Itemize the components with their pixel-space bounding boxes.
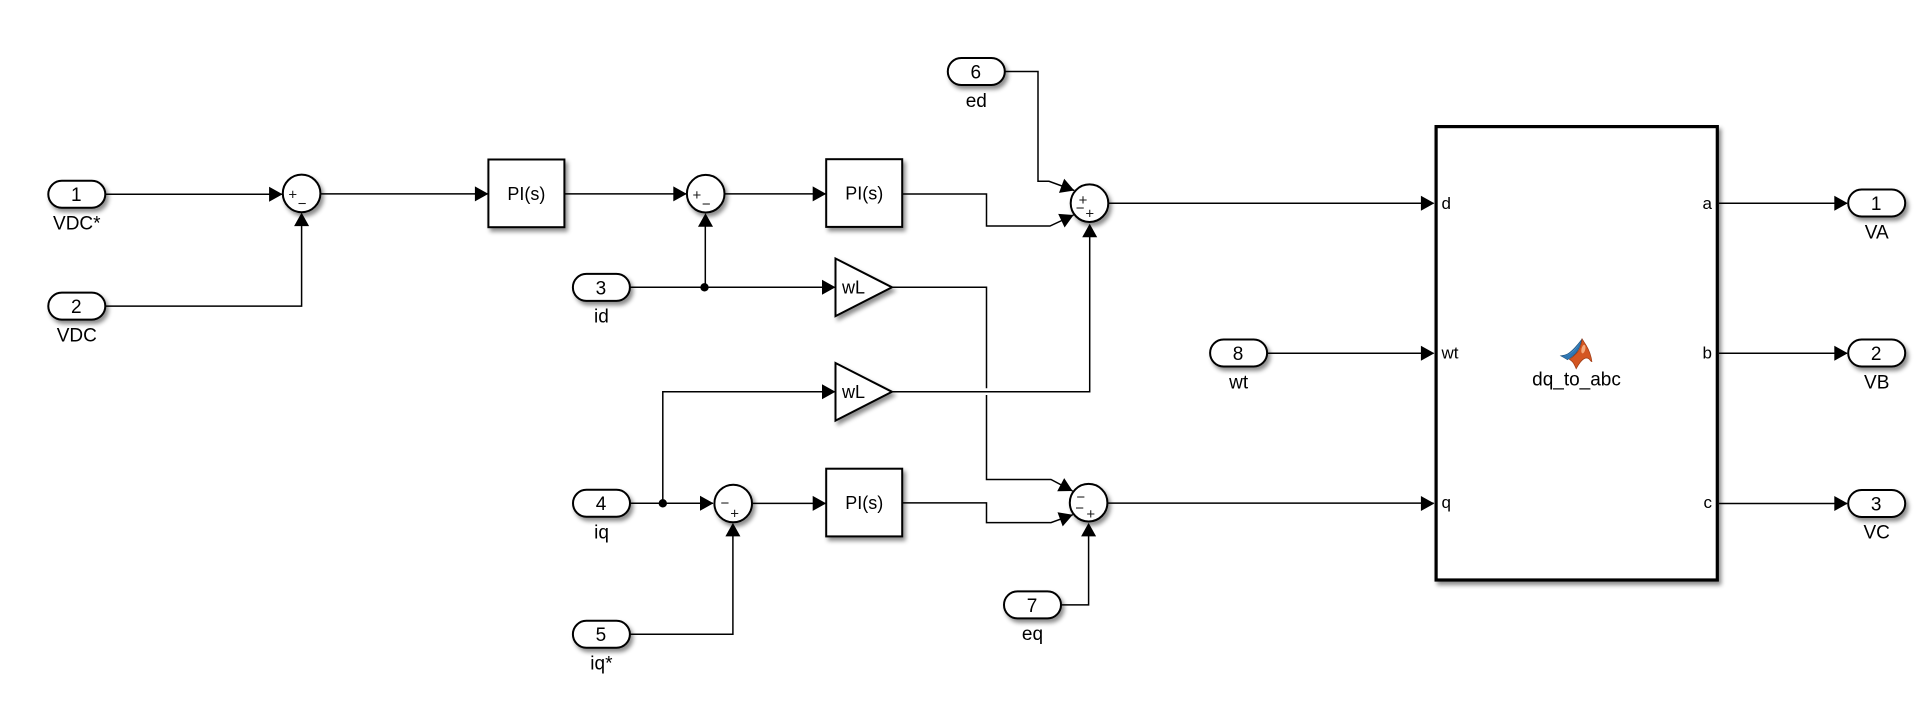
MATLAB logo icon [1561,339,1592,369]
wire port7 to sum S5 bottom [1060,523,1096,605]
PI controller block PI2 [826,159,902,227]
svg-text:2: 2 [71,297,82,318]
svg-text:VDC*: VDC* [53,214,101,235]
wire PI2 to sum S4 lower-left [902,194,1074,228]
svg-text:PI(s): PI(s) [507,184,545,204]
gain block G2 wL [836,363,893,421]
svg-text:id: id [594,307,609,328]
inport 8 wt [1210,340,1267,394]
svg-text:8: 8 [1233,344,1244,365]
wire sum S1 to PI1 [320,186,488,201]
sum junction S4 [1071,184,1109,222]
wire port5 to sum S3 bottom [630,523,740,634]
svg-text:+: + [693,187,702,204]
svg-text:+: + [1085,206,1094,223]
svg-text:iq*: iq* [590,654,613,675]
inport 7 eq [1004,591,1061,645]
svg-text:VA: VA [1865,222,1889,243]
svg-text:5: 5 [596,625,607,646]
svg-text:1: 1 [71,185,82,206]
wire PI1 to sum S2 [565,186,687,201]
svg-text:−: − [721,495,730,512]
wire port6 to sum S4 upper-left [1005,72,1075,193]
wire port1 to sum S1 [105,187,283,202]
junction dot on iq line [659,499,667,507]
inport 3 id [573,274,630,328]
svg-text:wt: wt [1441,344,1459,363]
inport 4 iq [573,490,630,544]
inport 6 ed [948,58,1005,112]
wire port4 to sum S3 with branch up to gain G2 [630,384,836,511]
svg-text:1: 1 [1871,194,1882,215]
svg-text:−: − [1076,200,1085,217]
sum junction S3 [714,485,752,523]
svg-text:b: b [1703,344,1712,363]
svg-text:2: 2 [1871,344,1882,365]
outport 1 VA [1848,190,1905,244]
svg-text:dq_to_abc: dq_to_abc [1532,369,1621,390]
svg-text:wt: wt [1228,372,1249,393]
PI controller block PI1 [488,160,564,228]
svg-text:ed: ed [966,91,987,112]
svg-text:7: 7 [1027,596,1038,617]
svg-text:VB: VB [1864,372,1889,393]
svg-text:eq: eq [1022,624,1043,645]
wire sum S3 to PI3 [752,496,826,511]
svg-text:3: 3 [1871,494,1882,515]
svg-text:iq: iq [594,523,609,544]
gain block G1 wL [836,259,893,317]
inport 5 iq* [573,621,630,675]
svg-text:q: q [1442,493,1451,512]
svg-text:+: + [288,187,297,204]
svg-text:c: c [1704,493,1713,512]
sum junction S5 [1070,484,1108,523]
sum junction S2 [687,175,725,213]
svg-text:wL: wL [841,278,865,298]
wire dq_to_abc port a to outport VA [1719,196,1848,211]
svg-text:d: d [1442,194,1451,213]
svg-text:+: + [730,506,739,523]
outport 2 VB [1848,340,1905,394]
svg-text:PI(s): PI(s) [845,493,883,513]
svg-text:+: + [1086,506,1095,523]
wire PI3 to sum S5 lower-left [902,503,1073,527]
wire sum S2 to PI2 [725,186,827,201]
wire port8 to dq_to_abc port wt [1268,346,1435,361]
wire port2 to sum S1 bottom [105,213,310,307]
svg-text:3: 3 [596,278,607,299]
wire sum S5 to dq_to_abc port q [1108,496,1434,511]
svg-text:PI(s): PI(s) [845,184,883,204]
wire dq_to_abc port b to outport VB [1719,346,1848,361]
svg-text:−: − [702,196,711,213]
wire gain G1 to sum S5 upper-left (with crossing gap) [892,287,1073,491]
svg-text:a: a [1703,194,1713,213]
PI controller block PI3 [826,469,902,537]
svg-text:−: − [298,196,307,213]
svg-text:6: 6 [971,62,982,83]
svg-text:wL: wL [841,382,865,402]
sum junction S1 [283,175,321,213]
junction dot on id line [700,283,708,291]
svg-text:−: − [1075,500,1084,517]
svg-text:VDC: VDC [57,325,97,346]
svg-text:VC: VC [1863,523,1889,544]
inport 2 VDC [48,293,105,347]
wire gain G2 to sum S4 bottom [892,224,1097,392]
MATLAB function block dq_to_abc [1436,127,1717,580]
wire dq_to_abc port c to outport VC [1719,496,1848,511]
wire sum S4 to dq_to_abc port d [1109,196,1434,211]
svg-text:4: 4 [596,494,607,515]
wire port3 to gain G1 with branch to sum S2 bottom [630,213,836,295]
inport 1 VDC* [48,181,105,235]
outport 3 VC [1848,490,1905,544]
